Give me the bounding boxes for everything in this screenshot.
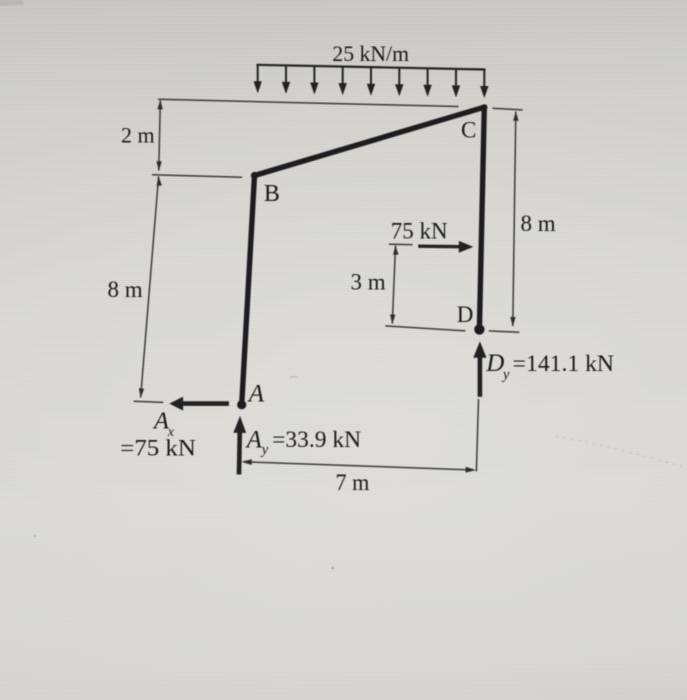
svg-text:7 m: 7 m bbox=[336, 470, 370, 496]
svg-text:B: B bbox=[264, 181, 280, 207]
svg-text:2 m: 2 m bbox=[121, 123, 155, 148]
svg-text:75 kN: 75 kN bbox=[391, 218, 448, 243]
svg-text:25 kN/m: 25 kN/m bbox=[332, 41, 409, 66]
svg-text:C: C bbox=[461, 118, 476, 143]
svg-text:=141.1 kN: =141.1 kN bbox=[513, 351, 615, 376]
svg-text:8 m: 8 m bbox=[521, 211, 556, 236]
svg-text:=75 kN: =75 kN bbox=[120, 435, 196, 461]
svg-text:D: D bbox=[485, 350, 504, 377]
svg-text:=33.9 kN: =33.9 kN bbox=[272, 427, 361, 452]
svg-text:3 m: 3 m bbox=[351, 270, 386, 295]
svg-text:8 m: 8 m bbox=[108, 277, 143, 302]
svg-text:A: A bbox=[245, 426, 263, 453]
svg-text:y: y bbox=[501, 367, 510, 383]
svg-text:y: y bbox=[260, 442, 269, 458]
svg-text:D: D bbox=[457, 302, 474, 327]
svg-text:A: A bbox=[247, 380, 265, 407]
